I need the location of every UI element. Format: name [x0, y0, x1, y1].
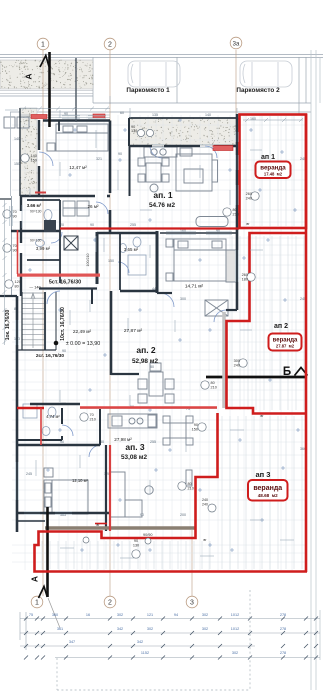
axis circle 1 top	[37, 38, 49, 50]
bed top-left bedroom	[47, 124, 108, 151]
shaft square corridor	[64, 236, 78, 250]
svg-text:3: 3	[190, 599, 194, 606]
annotation crosses	[28, 118, 300, 552]
svg-text:1ок. 16,76/30: 1ок. 16,76/30	[5, 309, 11, 340]
column circles terrace	[137, 129, 144, 136]
svg-text:210: 210	[211, 385, 217, 389]
svg-text:80: 80	[150, 365, 154, 369]
svg-text:ап. 3: ап. 3	[125, 442, 145, 452]
axis circle 2 top	[104, 38, 116, 50]
svg-text:94: 94	[174, 613, 178, 617]
svg-text:17.48 м2: 17.48 м2	[264, 172, 283, 177]
gray wall beside red boundary	[222, 312, 226, 408]
veranda decking lines	[42, 116, 304, 569]
svg-text:135: 135	[152, 113, 158, 117]
hall closets	[63, 201, 89, 216]
svg-text:278: 278	[280, 613, 286, 617]
desk ap2	[205, 300, 228, 316]
car parking spot 1	[128, 61, 180, 87]
svg-text:1: 1	[41, 41, 45, 48]
svg-text:14,71 м²: 14,71 м²	[185, 284, 204, 290]
svg-text:240: 240	[234, 363, 240, 367]
stipple terrace band ap1	[129, 118, 237, 146]
scattered tiny dimension numbers	[14, 111, 306, 517]
svg-text:361: 361	[57, 627, 63, 631]
svg-text:1012: 1012	[231, 613, 239, 617]
svg-text:342: 342	[137, 640, 143, 644]
svg-text:150: 150	[192, 427, 198, 431]
faint room grid lines	[12, 115, 306, 570]
dining table ap3	[163, 416, 193, 445]
axis circle 2 bottom	[104, 596, 116, 608]
svg-text:Б: Б	[283, 366, 291, 378]
svg-text:150: 150	[108, 259, 114, 263]
svg-text:52,98 м2: 52,98 м2	[132, 358, 158, 365]
svg-text:5ст. 16,76/30: 5ст. 16,76/30	[49, 280, 81, 286]
svg-text:3,65 м²: 3,65 м²	[124, 247, 139, 252]
svg-text:ап 1: ап 1	[261, 154, 275, 161]
red wall segment ap3 top	[17, 407, 44, 409]
dining set ap1	[138, 158, 169, 192]
shower block bathroom	[44, 220, 56, 232]
svg-text:12,10 м²: 12,10 м²	[72, 478, 89, 483]
bottom dimension lines	[20, 612, 320, 658]
svg-text:240: 240	[202, 503, 208, 507]
svg-text:Паркомясто 1: Паркомясто 1	[126, 87, 170, 94]
svg-text:27,98 м²: 27,98 м²	[114, 437, 132, 442]
svg-text:342: 342	[117, 627, 123, 631]
red wall stub bedroom	[35, 192, 46, 194]
svg-text:± 0.00 = 13,90: ± 0.00 = 13,90	[66, 341, 101, 347]
svg-text:200: 200	[180, 513, 186, 517]
thin lines above top wall	[20, 115, 110, 118]
svg-text:2: 2	[108, 599, 112, 606]
annotation noise segments	[5, 96, 294, 558]
svg-text:210: 210	[90, 417, 96, 421]
svg-text:1152: 1152	[141, 651, 149, 655]
svg-text:302: 302	[232, 651, 238, 655]
svg-text:ап. 1: ап. 1	[153, 190, 173, 200]
svg-text:10ст. 16,76/30: 10ст. 16,76/30	[60, 307, 66, 341]
svg-text:210: 210	[188, 486, 194, 490]
svg-text:А: А	[29, 576, 39, 582]
svg-text:90: 90	[13, 214, 17, 218]
svg-text:278: 278	[280, 651, 286, 655]
bed ap1 bedroom 14.71	[166, 239, 226, 281]
svg-text:347: 347	[69, 640, 75, 644]
svg-text:4,74 м²: 4,74 м²	[46, 414, 60, 419]
door arcs	[39, 146, 226, 457]
red wall stub east terrace	[213, 146, 233, 151]
right margin verticals	[311, 50, 320, 690]
section line A bottom	[39, 507, 61, 628]
svg-text:302: 302	[147, 627, 153, 631]
svg-text:2сг. 16,76/30: 2сг. 16,76/30	[36, 353, 65, 359]
svg-text:150: 150	[31, 158, 37, 162]
svg-text:веранда: веранда	[253, 485, 282, 492]
svg-text:160: 160	[250, 117, 256, 121]
svg-text:140: 140	[14, 137, 20, 141]
sofa ap3	[110, 470, 192, 517]
svg-text:3.66 м²: 3.66 м²	[27, 203, 42, 208]
svg-text:27.87 м2: 27.87 м2	[276, 344, 295, 349]
svg-text:54.76 м2: 54.76 м2	[149, 202, 175, 209]
windows	[10, 116, 238, 514]
svg-text:90: 90	[62, 349, 66, 353]
entry rects top-left	[4, 117, 29, 128]
svg-text:278: 278	[280, 627, 286, 631]
stipple balcony strip top-left	[20, 108, 37, 195]
svg-text:300: 300	[180, 297, 186, 301]
svg-text:150: 150	[14, 162, 20, 166]
svg-text:ап 2: ап 2	[274, 323, 288, 330]
red wall stub top-left	[31, 115, 47, 119]
axis circle 1 bottom	[31, 596, 43, 608]
red wall left	[17, 230, 19, 274]
svg-text:130: 130	[133, 544, 139, 548]
edge dimension chains	[3, 107, 304, 346]
svg-text:302: 302	[202, 627, 208, 631]
svg-text:90: 90	[134, 539, 138, 543]
svg-text:210: 210	[233, 212, 239, 216]
stairs	[22, 293, 44, 348]
axis 3a line	[235, 50, 237, 114]
svg-text:Паркомясто 2: Паркомясто 2	[236, 87, 280, 94]
svg-text:75: 75	[29, 613, 33, 617]
red wall right of bedroom	[109, 445, 111, 531]
svg-text:140: 140	[205, 113, 211, 117]
svg-text:ап 3: ап 3	[256, 470, 271, 479]
axis circle 3 bottom	[186, 596, 198, 608]
svg-text:27,87 м²: 27,87 м²	[124, 328, 143, 334]
svg-text:121: 121	[147, 613, 153, 617]
svg-text:60: 60	[120, 111, 124, 115]
red wall stub corridor top	[93, 114, 105, 118]
svg-text:90=130: 90=130	[30, 210, 42, 214]
kitchen ap3	[108, 414, 157, 428]
car parking spot 2	[240, 61, 292, 87]
svg-text:— 140: — 140	[29, 286, 40, 290]
svg-text:16: 16	[86, 613, 90, 617]
svg-text:веранда: веранда	[260, 165, 286, 172]
axis circle 3a top	[230, 37, 242, 49]
svg-text:245: 245	[26, 472, 32, 476]
svg-text:3,99 м²: 3,99 м²	[36, 246, 51, 251]
section line A top	[40, 52, 50, 127]
red veranda ap2 outline	[227, 233, 307, 414]
red wall between ap1 and ap2	[60, 227, 239, 229]
svg-text:90: 90	[13, 248, 17, 252]
red wall band corridor	[17, 274, 100, 277]
svg-text:240: 240	[246, 196, 252, 200]
svg-text:22,49 м²: 22,49 м²	[73, 329, 92, 335]
svg-text:2: 2	[108, 41, 112, 48]
dining table ap2	[138, 363, 174, 403]
svg-text:ап. 2: ап. 2	[136, 345, 156, 355]
svg-text:302: 302	[202, 613, 208, 617]
svg-text:53,08 м2: 53,08 м2	[121, 454, 147, 461]
dimension ticks	[24, 617, 318, 660]
svg-text:255: 255	[150, 440, 156, 444]
svg-text:321: 321	[96, 157, 102, 161]
svg-text:130: 130	[131, 129, 137, 133]
svg-text:3а: 3а	[233, 41, 240, 47]
plot boundary lines top	[0, 55, 323, 115]
wall ap1 living left	[129, 146, 131, 196]
svg-text:90=130: 90=130	[30, 239, 42, 243]
svg-text:1: 1	[35, 599, 39, 606]
dashed plot boundary bottom	[57, 590, 250, 690]
kitchen counter ap1	[144, 147, 192, 157]
svg-text:1012: 1012	[231, 627, 239, 631]
axis 1 line	[42, 50, 44, 596]
svg-text:90/90: 90/90	[143, 533, 153, 537]
svg-text:90: 90	[118, 152, 122, 156]
svg-text:180: 180	[242, 277, 248, 281]
bed ap3 bedroom 12.10	[44, 468, 88, 514]
hatch strip below left band	[0, 91, 93, 94]
svg-text:26 м²: 26 м²	[87, 204, 99, 209]
svg-text:360: 360	[52, 613, 58, 617]
stipple band parking left	[0, 60, 93, 89]
wardrobe ap1	[226, 250, 237, 282]
svg-text:90: 90	[90, 223, 94, 227]
svg-text:А: А	[23, 73, 33, 79]
svg-text:12,47 м²: 12,47 м²	[69, 165, 87, 170]
red veranda ap3 outline	[35, 413, 308, 572]
svg-text:255: 255	[130, 223, 136, 227]
axis 2 line	[109, 50, 111, 596]
svg-text:48.68 м2: 48.68 м2	[258, 493, 278, 498]
svg-text:240: 240	[202, 498, 208, 502]
bathroom fixtures	[23, 210, 146, 436]
red right boundary	[305, 114, 308, 572]
axis 3 line	[191, 530, 193, 596]
rug and sofa ap1	[176, 154, 218, 191]
svg-text:80: 80	[15, 284, 19, 288]
section line B	[206, 368, 308, 378]
svg-text:100/210: 100/210	[86, 254, 90, 267]
svg-text:90: 90	[64, 112, 68, 116]
building walls	[0, 58, 237, 532]
bathtub ap1	[196, 217, 228, 227]
svg-text:302: 302	[117, 613, 123, 617]
red veranda ap1 rectangle	[240, 115, 307, 229]
window size markers	[3, 210, 11, 218]
red divider wall ap2/ap3	[80, 406, 217, 408]
